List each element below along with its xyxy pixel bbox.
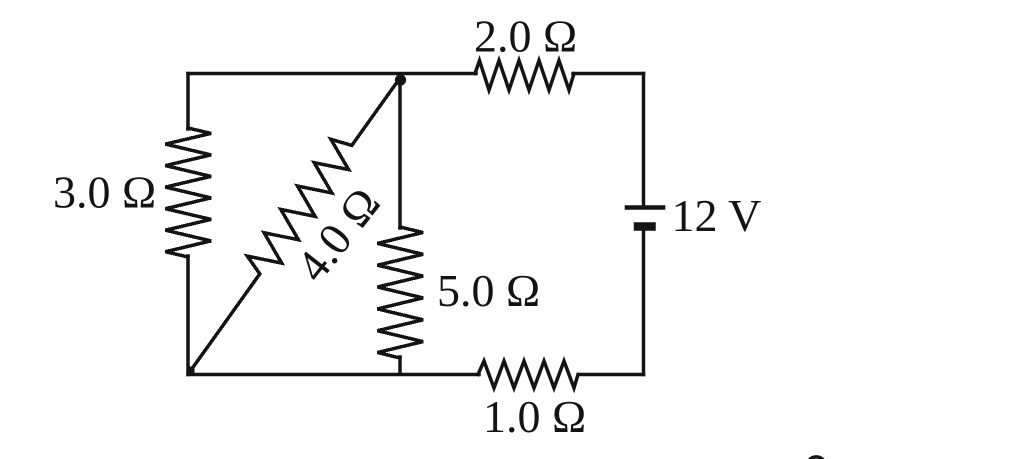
resistor R5 (5.0 ohm) zigzag [378, 227, 424, 358]
wire right lower vertical [642, 229, 646, 375]
wire bottom-left horizontal [188, 373, 479, 377]
svg-text:5.0 Ω: 5.0 Ω [437, 265, 540, 316]
svg-text:2.0 Ω: 2.0 Ω [474, 11, 577, 62]
wire middle upper vertical [398, 78, 402, 228]
wire bottom-right horizontal [579, 373, 644, 377]
resistor R2 (2.0 ohm) zigzag [475, 61, 574, 91]
partial glyph arc at bottom edge [809, 457, 824, 459]
node junction dot top middle [395, 74, 406, 85]
svg-text:3.0 Ω: 3.0 Ω [53, 167, 156, 218]
battery V1 long plate [627, 205, 663, 210]
svg-text:1.0 Ω: 1.0 Ω [483, 391, 586, 442]
wire top-right horizontal [573, 72, 644, 76]
resistor R3 (4.0 ohm) diagonal with leads [190, 78, 400, 372]
resistor R1 (3.0 ohm) zigzag [166, 128, 212, 257]
resistor R4 (1.0 ohm) zigzag [478, 361, 578, 388]
wire left lower vertical [186, 256, 190, 375]
wire right upper vertical [642, 74, 646, 206]
svg-text:12 V: 12 V [672, 190, 762, 241]
wire left upper vertical [186, 74, 190, 130]
node junction dot bottom left [187, 367, 195, 375]
wire top-left horizontal [188, 72, 476, 76]
wire middle lower vertical [398, 357, 402, 374]
battery V1 short plate [638, 222, 652, 231]
